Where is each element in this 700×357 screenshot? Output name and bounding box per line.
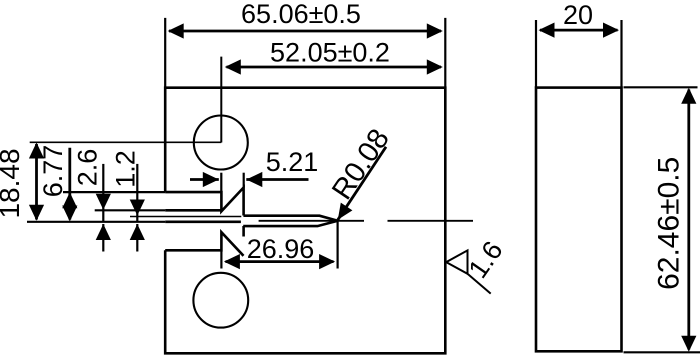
svg-text:2.6: 2.6 [73,149,103,187]
svg-text:1.2: 1.2 [111,150,141,188]
svg-text:20: 20 [563,0,593,30]
svg-text:52.05±0.2: 52.05±0.2 [270,37,390,67]
svg-text:65.06±0.5: 65.06±0.5 [241,0,361,29]
svg-text:18.48: 18.48 [0,148,25,218]
svg-text:26.96: 26.96 [247,234,315,264]
svg-text:62.46±0.5: 62.46±0.5 [653,157,686,290]
svg-text:6.77: 6.77 [38,145,68,198]
svg-text:5.21: 5.21 [266,147,319,177]
